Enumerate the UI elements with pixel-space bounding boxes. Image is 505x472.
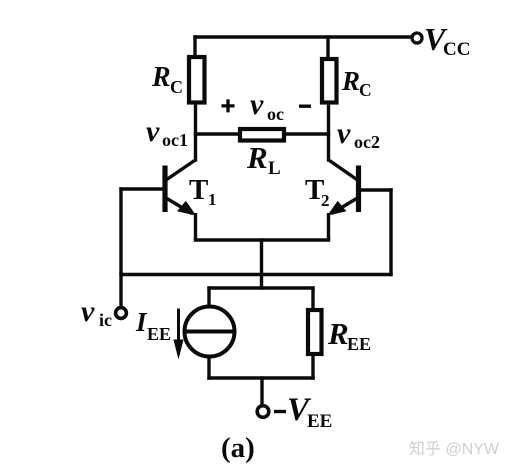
resistor RL <box>240 129 284 179</box>
resistor REE <box>308 310 371 354</box>
svg-text:L: L <box>268 158 281 179</box>
wire RL to node voc2 <box>286 132 329 135</box>
terminal VCC <box>412 21 470 60</box>
wire node voc1 to RL <box>196 132 239 135</box>
svg-text:v: v <box>337 117 351 150</box>
svg-text:ic: ic <box>99 310 112 330</box>
svg-text:CC: CC <box>443 39 470 60</box>
wire left branch down to vic terminal <box>119 189 122 306</box>
svg-text:v: v <box>146 115 160 148</box>
svg-text:R: R <box>341 66 360 96</box>
node voc1 label <box>146 115 188 150</box>
node voc2 label <box>337 117 380 152</box>
svg-text:oc2: oc2 <box>354 132 380 152</box>
svg-text:EE: EE <box>347 334 371 354</box>
transistor T2 <box>305 160 359 241</box>
wire current source bottom stub <box>207 356 210 378</box>
terminal -VEE <box>257 392 332 432</box>
resistor RC1 <box>151 57 205 103</box>
wire right branch down <box>389 190 392 275</box>
wire top rail VCC <box>195 35 411 38</box>
svg-text:1: 1 <box>208 190 217 209</box>
wire emitter bus <box>196 238 329 241</box>
svg-text:v: v <box>81 295 95 328</box>
wire current source top stub <box>207 288 210 307</box>
terminal vic <box>81 295 126 330</box>
wire RC2 bottom to T2 collector node <box>327 104 330 160</box>
svg-text:(a): (a) <box>221 432 255 464</box>
svg-text:v: v <box>250 88 264 121</box>
svg-text:R: R <box>327 316 349 351</box>
wire T2 base to right branch <box>360 188 391 191</box>
wire T1 base to left branch <box>121 187 163 190</box>
transistor T1 <box>165 160 217 241</box>
svg-text:C: C <box>170 77 183 97</box>
wire tail network top rail <box>209 286 313 289</box>
wire bottom stub to -VEE terminal <box>260 378 263 405</box>
svg-text:oc1: oc1 <box>162 130 188 150</box>
wire left drop from rail to RC1 <box>193 37 196 56</box>
wire REE top stub <box>311 288 314 310</box>
wire tail network bottom rail <box>209 376 313 379</box>
current source IEE <box>185 307 235 357</box>
wire RC1 bottom to T1 collector node <box>194 104 197 160</box>
svg-text:C: C <box>359 80 372 100</box>
svg-text:R: R <box>151 62 171 93</box>
svg-text:EE: EE <box>147 324 171 344</box>
svg-text:知乎 @NYW: 知乎 @NYW <box>409 440 500 458</box>
IEE arrow <box>135 307 184 360</box>
wire right drop from rail to RC2 <box>326 37 329 57</box>
svg-text:oc: oc <box>267 104 284 124</box>
svg-text:EE: EE <box>307 411 332 432</box>
svg-text:T: T <box>189 174 208 206</box>
label + voc - across RL <box>222 88 312 124</box>
wire tail vertical <box>260 240 263 288</box>
resistor RC2 <box>322 59 372 103</box>
wire REE bottom stub <box>311 355 314 378</box>
wire base bus horizontal <box>121 273 391 276</box>
svg-text:R: R <box>246 140 268 175</box>
svg-text:2: 2 <box>321 191 330 210</box>
